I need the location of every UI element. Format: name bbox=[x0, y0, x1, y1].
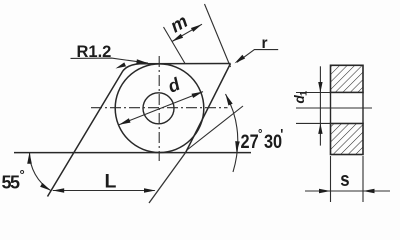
label s bbox=[340, 167, 349, 190]
d dimension line with outward arrows bbox=[119, 92, 203, 125]
svg-text:L: L bbox=[105, 170, 117, 192]
label 27deg30' bbox=[241, 125, 284, 152]
27deg30 dimension arc bbox=[226, 94, 238, 172]
wire: bottom horizontal edge/reference line of insert bbox=[14, 152, 251, 154]
d1 dimension vertical line with arrows bbox=[319, 66, 321, 145]
svg-text:55: 55 bbox=[2, 172, 21, 192]
svg-text:27: 27 bbox=[241, 131, 259, 152]
svg-text:d: d bbox=[165, 73, 184, 96]
big circle: inscribed circle d bbox=[115, 64, 204, 153]
svg-text:°: ° bbox=[20, 167, 25, 182]
27deg30 ray from edge bbox=[187, 106, 243, 150]
centerline vertical (dash-dot) bbox=[158, 56, 160, 161]
m dimension: right extension line bbox=[205, 4, 231, 67]
hole top line extended left bbox=[296, 92, 331, 94]
insert outline: top edge, top-left fillet, left edge extended bbox=[48, 64, 231, 197]
m dimension: left extension line bbox=[164, 27, 186, 64]
L dimension line with arrows bbox=[53, 190, 155, 192]
second arrow of R1.2 pointing at fillet bbox=[116, 62, 127, 68]
svg-text:': ' bbox=[280, 125, 283, 142]
side view bottom hatched band bbox=[331, 123, 364, 154]
extension line from bottom corner B for L dimension bbox=[149, 152, 186, 203]
side view middle band (hole) bbox=[331, 93, 364, 124]
side view top hatched band bbox=[331, 65, 364, 92]
55deg angle arc with arrows bbox=[29, 152, 51, 191]
centerline horizontal (dash-dot) bbox=[91, 107, 228, 109]
insert right edge R to B extended bbox=[186, 64, 231, 153]
label d1 (rotated) bbox=[292, 90, 310, 104]
m dimension line with arrows bbox=[172, 24, 202, 41]
s dimension line with outside arrows bbox=[305, 190, 390, 192]
small circle: hole bbox=[143, 93, 174, 124]
svg-text:s: s bbox=[340, 167, 349, 190]
hole bottom line extended left bbox=[296, 122, 331, 124]
side view centerline bbox=[296, 107, 372, 109]
svg-text:1: 1 bbox=[299, 90, 310, 96]
s dimension extension lines bbox=[330, 156, 332, 202]
svg-text:°: ° bbox=[258, 126, 263, 141]
R1.2 underline and leader with arrow bbox=[71, 58, 149, 63]
